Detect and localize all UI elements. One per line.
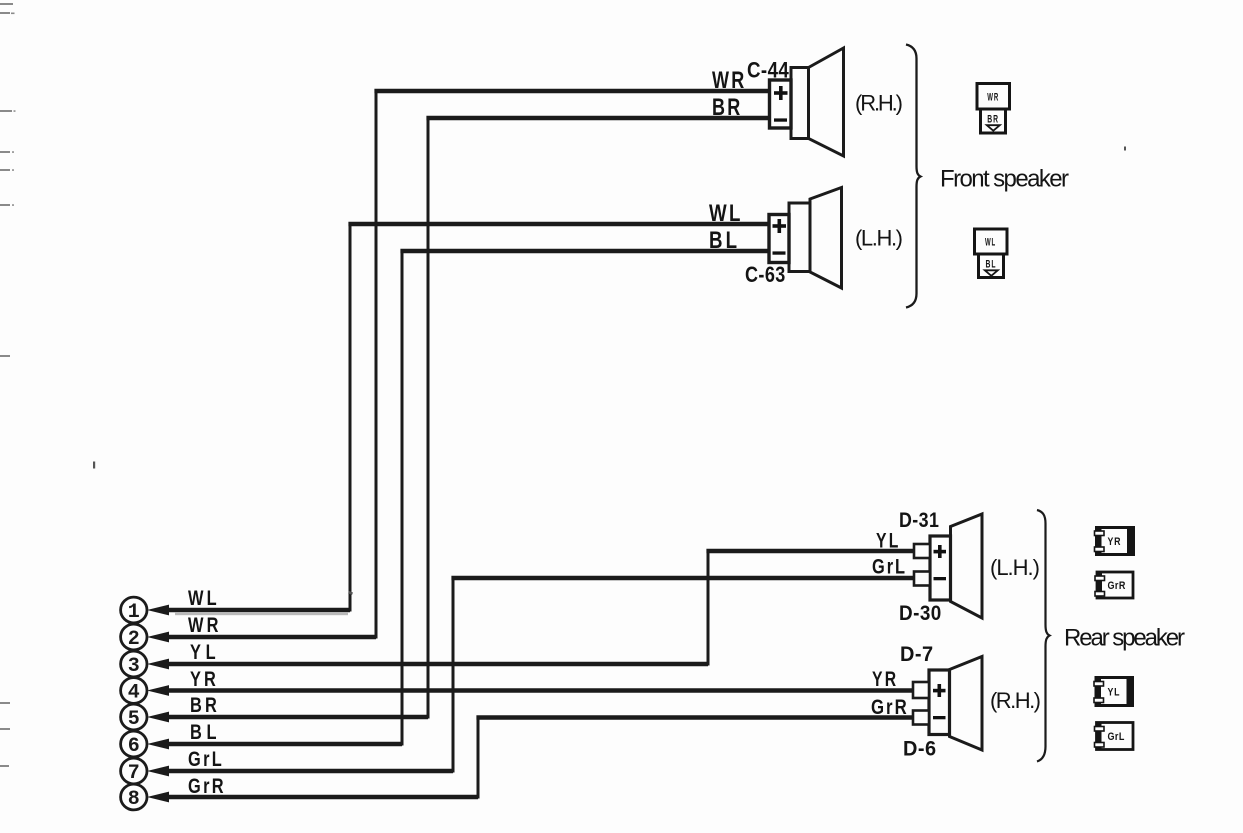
svg-text:5: 5: [128, 708, 140, 731]
svg-text:(L.H.): (L.H.): [990, 555, 1040, 580]
svg-text:BR: BR: [712, 95, 742, 121]
svg-text:WL: WL: [709, 200, 743, 227]
svg-text:BR: BR: [190, 693, 220, 716]
svg-text:WL: WL: [188, 586, 220, 609]
svg-text:YR: YR: [1108, 536, 1122, 548]
svg-text:GrR: GrR: [871, 696, 909, 719]
svg-text:C-63: C-63: [745, 263, 786, 287]
svg-text:BL: BL: [986, 258, 997, 270]
svg-text:YL: YL: [1108, 687, 1121, 699]
svg-text:YL: YL: [190, 640, 220, 663]
svg-text:Front speaker: Front speaker: [940, 166, 1069, 193]
svg-text:1: 1: [128, 601, 140, 624]
svg-text:(R.H.): (R.H.): [990, 688, 1041, 713]
svg-text:BL: BL: [190, 720, 221, 743]
svg-text:Rear speaker: Rear speaker: [1064, 625, 1185, 652]
svg-text:GrL: GrL: [1108, 731, 1125, 743]
svg-text:YR: YR: [872, 667, 898, 691]
svg-text:WR: WR: [712, 68, 746, 94]
svg-text:D-31: D-31: [899, 509, 939, 533]
svg-text:GrL: GrL: [872, 555, 907, 578]
svg-text:YR: YR: [190, 667, 219, 690]
svg-text:4: 4: [128, 682, 140, 705]
svg-text:D-7: D-7: [900, 643, 934, 667]
svg-text:BL: BL: [709, 227, 740, 254]
svg-text:C-44: C-44: [747, 59, 789, 83]
svg-text:WL: WL: [985, 236, 996, 248]
svg-text:WR: WR: [987, 91, 999, 103]
svg-text:(L.H.): (L.H.): [855, 226, 903, 251]
svg-text:WR: WR: [188, 613, 222, 636]
svg-text:6: 6: [128, 735, 140, 758]
svg-text:(R.H.): (R.H.): [855, 91, 903, 116]
svg-text:2: 2: [128, 628, 140, 651]
svg-text:GrL: GrL: [188, 747, 224, 770]
svg-text:BR: BR: [987, 113, 999, 125]
svg-text:3: 3: [128, 655, 140, 678]
svg-text:GrR: GrR: [188, 774, 226, 797]
svg-text:D-6: D-6: [903, 737, 937, 761]
svg-text:GrR: GrR: [1108, 580, 1127, 592]
svg-text:8: 8: [128, 788, 140, 811]
svg-text:YL: YL: [876, 528, 901, 552]
svg-text:7: 7: [128, 762, 140, 785]
svg-text:D-30: D-30: [899, 602, 942, 625]
